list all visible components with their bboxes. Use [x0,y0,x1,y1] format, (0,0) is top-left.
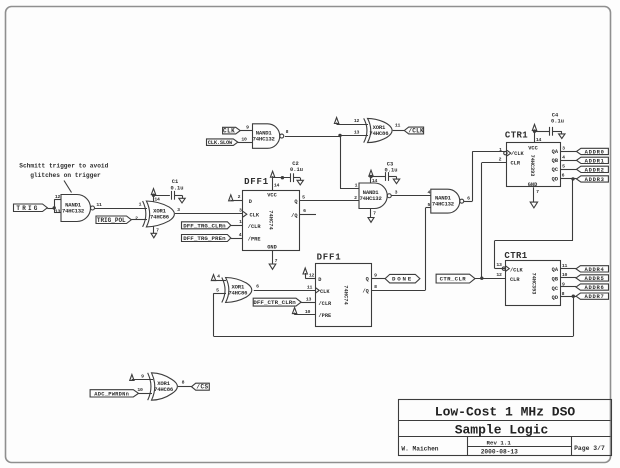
pin 14 power stub of XOR1 [153,195,155,201]
wire TRIG_POL to XOR1 pin 2 [131,219,147,221]
capacitor C2 [290,173,292,182]
wire QC to ADDR6 [560,286,576,288]
wire ADDR7 feedback to XOR pin 5 [573,296,575,336]
svg-text:74HC132: 74HC132 [253,135,276,142]
node ADDR3 junction [571,177,574,180]
svg-text:4: 4 [428,190,431,196]
svg-text:1: 1 [499,147,502,153]
svg-text:3: 3 [239,208,242,214]
svg-text:2: 2 [135,215,138,221]
node C4 junction [533,130,536,133]
svg-text:8: 8 [562,291,565,297]
wire junction to pin 13 [340,135,368,137]
xor-gate XOR1 74HC86 (chip select) [148,373,151,400]
svg-text:7: 7 [156,228,159,234]
wire C4 to ground [552,131,562,133]
wire QB to ADDR5 [560,277,576,279]
svg-text:/CLK: /CLK [510,267,524,273]
svg-text:ADC_PWRDNn: ADC_PWRDNn [94,391,129,397]
svg-text:/CLK: /CLK [408,128,424,135]
power arrow at XOR pin 12 [334,118,338,124]
clock bubble and wedge CTR1 [504,151,507,154]
capacitor C4 [549,127,551,136]
pin 7 GND stub of DFF1 [272,250,274,264]
clock bubble and wedge CTR1b [502,267,505,270]
svg-text:CLR: CLR [511,160,521,166]
svg-text:CTR1: CTR1 [505,130,528,140]
wire QA to ADDR0 [561,151,577,153]
svg-text:4: 4 [239,232,242,238]
wire TRIG to gate [47,208,54,210]
svg-text:/CS: /CS [196,384,208,391]
svg-text:10: 10 [241,136,247,142]
svg-text:9: 9 [141,374,144,380]
port /CLK [404,127,423,134]
clock wedge DFF1 [243,211,247,217]
wire to pin 12 [337,124,368,126]
ground at C4 [561,131,563,134]
wire /Q to NAND pin 5 riser [372,290,426,292]
svg-text:QD: QD [552,176,558,182]
svg-text:12: 12 [354,118,360,124]
svg-text:74HC132: 74HC132 [62,207,85,214]
svg-text:glitches on trigger: glitches on trigger [30,172,101,179]
svg-text:ADDR4: ADDR4 [584,266,604,273]
svg-text:74HC74: 74HC74 [268,210,274,230]
title block frame [399,400,612,456]
capacitor C1 [171,191,173,200]
svg-text:CLK: CLK [250,213,260,219]
wire to /PRE [231,238,243,240]
svg-text:/CLK: /CLK [511,151,525,157]
svg-text:8: 8 [374,284,377,290]
wire XOR out to DFF2 CLK [254,290,316,292]
port CLK [223,127,241,134]
wire C1 to ground [174,195,182,197]
svg-text:/Q: /Q [362,288,369,294]
svg-text:9: 9 [246,125,249,131]
counter CTR1 74HC393 (high nibble) [506,261,561,306]
svg-text:7: 7 [536,189,539,195]
svg-text:9: 9 [374,273,377,279]
svg-text:14: 14 [154,197,160,203]
svg-text:4: 4 [217,274,220,280]
xor-gate XOR1 74HC86 (clock invert) [364,118,367,142]
svg-text:7: 7 [373,211,376,217]
wire pin5 riser from DFF /Q [426,207,431,209]
power arrow at /PRE [292,308,296,314]
port ADDR7 [576,293,609,299]
svg-text:QB: QB [552,158,559,164]
svg-text:CLK: CLK [320,289,330,295]
counter CTR1 74HC393 (low nibble) [507,143,561,187]
wire to pins 12/13 [54,200,56,214]
svg-text:D: D [318,277,321,283]
node ADDR7 junction [572,295,575,298]
flip-flop DFF1 74HC74 (done) [316,264,372,327]
svg-text:CLR: CLR [510,277,520,283]
svg-text:ADDR6: ADDR6 [584,284,604,291]
svg-text:C3: C3 [387,162,393,168]
svg-text:GND: GND [528,182,538,188]
power arrow at XOR pin 9 [130,375,134,381]
svg-text:ADDR3: ADDR3 [585,176,605,183]
svg-text:DFF_CTR_CLRn: DFF_CTR_CLRn [253,299,296,306]
wire CLR riser [482,162,507,164]
svg-text:2: 2 [238,194,241,200]
nand-gate NAND1 74HC132 (trigger) [61,195,91,222]
svg-text:74HC132: 74HC132 [360,195,383,202]
power arrow VCC at CTR1 [532,124,536,130]
svg-text:11: 11 [395,122,401,128]
svg-text:1: 1 [139,202,142,208]
port TRIG [14,204,48,212]
svg-text:TRIG: TRIG [16,205,39,212]
svg-text:2: 2 [499,157,502,163]
ground at C3 [396,177,398,180]
svg-text:QA: QA [552,149,559,155]
title block column divider right [571,437,573,455]
svg-text:5: 5 [302,195,305,201]
svg-text:VCC: VCC [267,193,277,199]
svg-text:QC: QC [552,286,559,292]
wire QB to ADDR1 [561,160,577,162]
svg-text:10: 10 [137,387,143,393]
port DFF_TRG_CLRn [182,222,231,229]
svg-text:W. Maichen: W. Maichen [401,445,438,452]
xor-gate XOR1 74HC86 (trigger polarity) [143,201,146,227]
svg-text:0.1u: 0.1u [171,185,184,191]
ground below CTR1 [530,202,537,208]
svg-text:DFF1: DFF1 [317,253,342,263]
title block rev divider [467,446,572,448]
svg-text:74HC74: 74HC74 [343,285,349,305]
svg-text:VCC: VCC [528,145,538,151]
svg-text:TRIG_POL: TRIG_POL [97,217,126,224]
wire CTR_CLR to CLR [475,278,506,280]
wire CLK.SLOW to gate [238,142,253,144]
wire C3 to ground [388,176,396,178]
svg-text:QA: QA [552,267,559,273]
node C2 junction [281,176,284,179]
power arrow VCC [369,170,373,176]
svg-text:ADDR2: ADDR2 [585,166,605,173]
svg-text:74HC393: 74HC393 [529,155,535,177]
svg-text:6: 6 [303,208,306,214]
svg-text:14: 14 [536,137,542,143]
port ADC_PWRDNn [90,390,138,397]
port ADDR3 [577,176,609,182]
svg-text:14: 14 [274,183,280,189]
node C1 junction [152,194,155,197]
svg-text:6: 6 [562,172,565,178]
wire to capacitor C3 [371,176,385,178]
power arrow VCC at XOR1 [151,189,155,195]
wire QD to ADDR3 [561,178,577,180]
power arrow VCC at DFF1 [270,171,274,177]
svg-text:Rev 1.1: Rev 1.1 [487,439,512,446]
clock wedge DFF2 [315,288,319,294]
port ADDR1 [577,157,609,163]
flip-flop DFF1 74HC74 (trigger) [243,191,300,251]
xor-gate XOR1 74HC86 (done clock) [222,278,225,303]
svg-text:QC: QC [552,167,559,173]
svg-text:/PRE: /PRE [248,237,261,243]
pin 7 ground stub of XOR1 [153,227,155,234]
svg-text:CTR_CLR: CTR_CLR [440,276,467,283]
wire XOR output to /CLK port [393,130,405,132]
wire to capacitor C4 [535,131,550,133]
node CTR_CLR junction [480,277,483,280]
svg-text:1: 1 [355,183,358,189]
svg-text:DFF1: DFF1 [244,177,269,187]
title block row divider 1 [398,420,611,422]
svg-text:13: 13 [306,297,312,303]
wire QD to ADDR7 [560,296,576,298]
svg-text:/Q: /Q [291,213,298,219]
port ADDR5 [576,275,609,281]
svg-text:ADDR0: ADDR0 [585,148,605,155]
ground at C2 [300,178,302,181]
svg-text:74HC86: 74HC86 [154,386,174,393]
wire XOR out to /CS [178,386,192,388]
svg-text:8: 8 [286,129,289,135]
node C3 junction [369,175,372,178]
wire NAND output to junction [285,136,340,138]
svg-text:7: 7 [275,258,278,264]
svg-text:C1: C1 [172,179,178,185]
svg-text:11: 11 [96,202,102,208]
svg-text:Sample Logic: Sample Logic [455,422,549,437]
svg-text:CTR1: CTR1 [504,251,527,261]
svg-text:D: D [249,199,252,205]
wire C2 to ground [294,177,300,179]
wire /Q stub [300,214,316,216]
nand-gate NAND1 74HC132 (sample gate) [359,183,387,209]
wire QD down to CTR1b /CLK [572,179,574,241]
svg-text:/CLR: /CLR [319,301,333,307]
svg-text:6: 6 [467,195,470,201]
ground below NAND [368,218,374,223]
pin 14 power stub [370,177,372,184]
svg-text:74HC86: 74HC86 [150,213,170,220]
wire Q to DONE [372,278,386,280]
svg-text:3: 3 [177,207,180,213]
svg-text:11: 11 [307,285,313,291]
svg-text:Schmitt trigger to avoid: Schmitt trigger to avoid [19,162,108,169]
svg-text:0.1u: 0.1u [551,119,564,125]
svg-text:DFF_TRG_CLRn: DFF_TRG_CLRn [183,222,226,229]
capacitor C3 [385,172,387,181]
wire Q to NAND pin 2 [300,200,359,202]
svg-text:10: 10 [305,309,311,315]
svg-text:ADDR1: ADDR1 [585,157,605,164]
svg-text:8: 8 [182,380,185,386]
wire NAND out to next NAND pin 4 [391,195,431,197]
svg-text:0.1u: 0.1u [385,168,398,174]
svg-text:1: 1 [239,219,242,225]
svg-text:5: 5 [562,163,565,169]
note pointer line [64,181,72,193]
svg-text:0.1u: 0.1u [290,167,303,173]
svg-text:Low-Cost 1 MHz DSO: Low-Cost 1 MHz DSO [435,404,576,419]
svg-text:Page 3/7: Page 3/7 [574,445,605,452]
pin 14 VCC stub [272,178,274,190]
svg-text:DFF_TRG_PREn: DFF_TRG_PREn [183,235,226,242]
svg-text:74HC86: 74HC86 [228,289,248,296]
svg-text:12: 12 [55,194,61,200]
svg-text:74HC132: 74HC132 [432,201,455,208]
port ADDR2 [577,166,609,172]
svg-text:13: 13 [496,262,502,268]
wire to capacitor C1 [154,195,170,197]
svg-text:QB: QB [552,277,559,283]
ground below DFF1 [269,264,276,269]
wire to capacitor C2 [273,177,291,179]
ground below XOR1 [151,233,157,238]
pin 7 ground stub [370,209,372,218]
svg-text:ADDR7: ADDR7 [584,293,604,300]
pin 7 GND stub of CTR1 [533,187,535,202]
svg-text:4: 4 [562,154,565,160]
nand-gate NAND1 74HC132 (clock) [253,124,280,149]
port ADDR0 [577,148,609,154]
svg-text:CLK: CLK [223,128,235,135]
port /CS [192,383,210,390]
port DFF_CTR_CLRn [253,298,301,306]
svg-text:5: 5 [216,288,219,294]
svg-text:13: 13 [354,129,360,135]
wire QA to ADDR4 [560,268,576,270]
pin 2 D input with power arrow [229,195,233,201]
power arrow at XOR pin 4 [211,275,215,281]
svg-text:6: 6 [256,284,259,290]
wire XOR1 output to DFF1 CLK [175,213,243,215]
port CTR_CLR [436,274,475,283]
svg-text:C4: C4 [552,112,559,118]
svg-text:DONE: DONE [392,276,413,283]
svg-text:GND: GND [267,244,277,250]
svg-text:74HC86: 74HC86 [369,130,389,137]
node clock junction [338,134,341,137]
svg-text:/CLR: /CLR [248,224,262,230]
ground at C1 [182,195,184,198]
svg-text:14: 14 [372,178,378,184]
svg-text:13: 13 [55,208,61,214]
title block column divider left [467,437,469,455]
svg-text:ADDR5: ADDR5 [584,275,604,282]
port TRIG_POL [96,216,131,224]
svg-text:74HC393: 74HC393 [531,273,537,295]
svg-text:3: 3 [562,146,565,152]
svg-text:12: 12 [496,272,502,278]
port CLK.SLOW [207,139,238,146]
svg-text:2: 2 [354,195,357,201]
svg-text:3: 3 [395,190,398,196]
svg-text:QD: QD [552,295,558,301]
wire QC to ADDR2 [561,169,577,171]
pin 14 VCC stub [534,131,536,143]
svg-text:CLK.SLOW: CLK.SLOW [208,140,233,146]
port DFF_TRG_PREn [182,235,231,242]
svg-text:C2: C2 [292,161,298,167]
wire to /CLR [301,302,315,304]
wire to pin 9 [132,379,153,381]
node TRIG junction [53,206,56,209]
svg-text:/PRE: /PRE [319,313,332,319]
wire NAND out up to CTR1 /CLK [464,201,473,203]
svg-text:2000-08-13: 2000-08-13 [481,449,518,456]
wire to pin 10 [139,393,153,395]
port DONE [385,274,420,283]
title block row divider 2 [398,436,611,438]
port ADDR6 [576,284,609,290]
wire gate output to XOR1 pin 1 [95,208,147,210]
pin 12 D input with power arrow [303,268,307,274]
wire CLK to gate [240,130,252,132]
port ADDR4 [576,266,609,272]
nand-gate NAND1 74HC132 (ctr clock gate) [431,189,460,213]
wire to /CLR [231,225,243,227]
svg-text:12: 12 [309,272,315,278]
wire junction down to NAND pin 1 [340,135,342,188]
